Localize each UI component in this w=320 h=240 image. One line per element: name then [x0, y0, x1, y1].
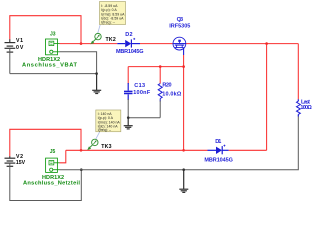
svg-text:MBR1045G: MBR1045G [116, 49, 144, 55]
battery V1 [5, 43, 16, 53]
node junction ground mid [127, 116, 130, 119]
node junction ground tap top [95, 72, 98, 75]
wire Q3 drain to right corner [186, 43, 298, 45]
node junction V1 drop on top rail [80, 42, 83, 45]
resistor Last [297, 99, 299, 101]
annotation box TK2 [100, 2, 126, 25]
wire V1 return bus [10, 73, 97, 75]
wire D2 to Q3 [140, 43, 173, 45]
wire bottom rail [66, 149, 208, 151]
node junction V2 drop [80, 149, 83, 152]
svg-text:100Ω: 100Ω [300, 105, 312, 111]
svg-text:C13: C13 [134, 83, 145, 89]
capacitor C13 [124, 83, 133, 100]
svg-text:15V: 15V [16, 160, 26, 166]
svg-text:J3: J3 [50, 32, 56, 38]
node junction gate D1 rail [182, 149, 185, 152]
wire C13 bottom [127, 99, 129, 118]
battery V2 [5, 158, 16, 166]
svg-text:Anschluss_VBAT: Anschluss_VBAT [22, 62, 78, 68]
diode D2 MBR1045G [117, 38, 140, 48]
node junction ground bottom [182, 168, 185, 171]
wire bottom bus J5 [60, 169, 184, 171]
svg-text:V1: V1 [16, 38, 23, 44]
diode D1 MBR1045G [208, 145, 229, 155]
svg-text:IRF5305: IRF5305 [169, 24, 190, 30]
svg-text:10.0kΩ: 10.0kΩ [162, 91, 182, 97]
svg-text:I(freq): --: I(freq): -- [101, 21, 115, 25]
wire R20 bottom [159, 101, 161, 118]
wire V1 plus loop to rail [10, 16, 81, 44]
ground mid [124, 118, 133, 129]
svg-text:R20: R20 [162, 83, 171, 89]
wire Q3 gate vertical [183, 55, 185, 150]
wire D1 to riser [229, 149, 267, 151]
svg-text:0V: 0V [16, 45, 24, 51]
svg-text:J5: J5 [50, 149, 56, 155]
wire V2 plus loop [10, 129, 81, 156]
node junction D1-branch on top rail [265, 42, 268, 45]
wire J3 pin2 to drop [60, 52, 97, 74]
svg-text:100nF: 100nF [133, 90, 151, 96]
svg-text:I(freq): --: I(freq): -- [98, 128, 112, 132]
wire top rail J3 to D2 [60, 43, 118, 45]
annotation box TK3 [96, 110, 121, 132]
wire gate rail horizontal [128, 66, 183, 68]
wire D1 branch vertical [266, 44, 268, 151]
wire C13-R20 bottom link [128, 117, 160, 119]
probe TK2 [90, 25, 101, 45]
wire Last to bottom bus [184, 117, 299, 170]
svg-text:D1: D1 [215, 139, 221, 145]
svg-text:TK2: TK2 [106, 37, 116, 43]
wire V1 minus down [9, 48, 11, 73]
ground bottom [179, 170, 188, 193]
node junction V2 return on bus [80, 168, 83, 171]
resistor R20 [158, 67, 162, 102]
probe TK3 [87, 132, 99, 150]
node junction R20 top [159, 65, 162, 68]
transistor Q3 IRF5305 [173, 37, 186, 55]
node junction gate rail [182, 65, 185, 68]
ground top [92, 74, 101, 94]
svg-text:Q3: Q3 [177, 17, 184, 23]
wire C13 top [127, 67, 129, 84]
wire J5 pin1 riser [60, 150, 66, 163]
connector J5 HDR1X2 [46, 158, 60, 172]
svg-text:TK3: TK3 [101, 144, 111, 150]
wire V2 minus loop [10, 163, 82, 200]
wire right drop to Last [297, 44, 299, 100]
svg-text:Anschluss_Netzteil: Anschluss_Netzteil [23, 181, 80, 187]
svg-text:D2: D2 [125, 32, 132, 38]
connector J3 HDR1X2 [46, 39, 60, 55]
svg-text:MBR1045G: MBR1045G [204, 157, 233, 163]
